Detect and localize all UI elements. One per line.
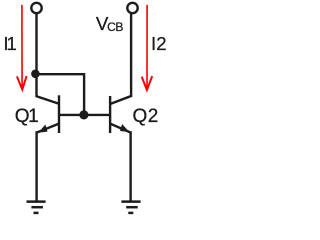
transistor Q2 base bar bbox=[109, 96, 111, 133]
svg-text:B: B bbox=[115, 20, 123, 34]
ground (right) bbox=[121, 202, 140, 213]
current arrow I1 (red) bbox=[17, 5, 27, 90]
transistor Q2 emitter arrowhead bbox=[120, 124, 129, 132]
transistor Q2 emitter lead bbox=[110, 124, 130, 133]
transistor Q1 emitter lead bbox=[37, 124, 59, 133]
transistor Q2 collector lead bbox=[110, 96, 131, 104]
svg-text:Q: Q bbox=[133, 106, 148, 127]
wire: top link from node A right then down to base rail bbox=[37, 74, 85, 115]
terminal circle right (VCB) bbox=[127, 3, 137, 13]
current arrow I2 (red) bbox=[142, 5, 153, 90]
wire: Q1 emitter down to ground bbox=[35, 131, 37, 201]
svg-text:1: 1 bbox=[28, 106, 39, 127]
terminal circle left bbox=[31, 3, 41, 13]
ground (left) bbox=[27, 202, 46, 213]
wire: VCB terminal down to Q2 collector corner bbox=[130, 14, 132, 97]
transistor Q1 base bar bbox=[58, 95, 60, 133]
wire: Q2 emitter down to ground bbox=[129, 131, 131, 201]
svg-text:2: 2 bbox=[148, 106, 159, 127]
node B (junction dot on base rail) bbox=[79, 110, 88, 119]
svg-text:1: 1 bbox=[7, 33, 17, 54]
transistor Q1 collector lead bbox=[37, 96, 60, 104]
wire: base rail between Q1 and Q2 bases bbox=[59, 114, 110, 116]
svg-text:2: 2 bbox=[156, 33, 166, 54]
node A (junction dot on left collector wire) bbox=[31, 70, 40, 79]
transistor Q1 emitter arrowhead bbox=[38, 125, 47, 133]
wire: left input vertical (terminal to Q1 collector corner) bbox=[35, 14, 37, 98]
